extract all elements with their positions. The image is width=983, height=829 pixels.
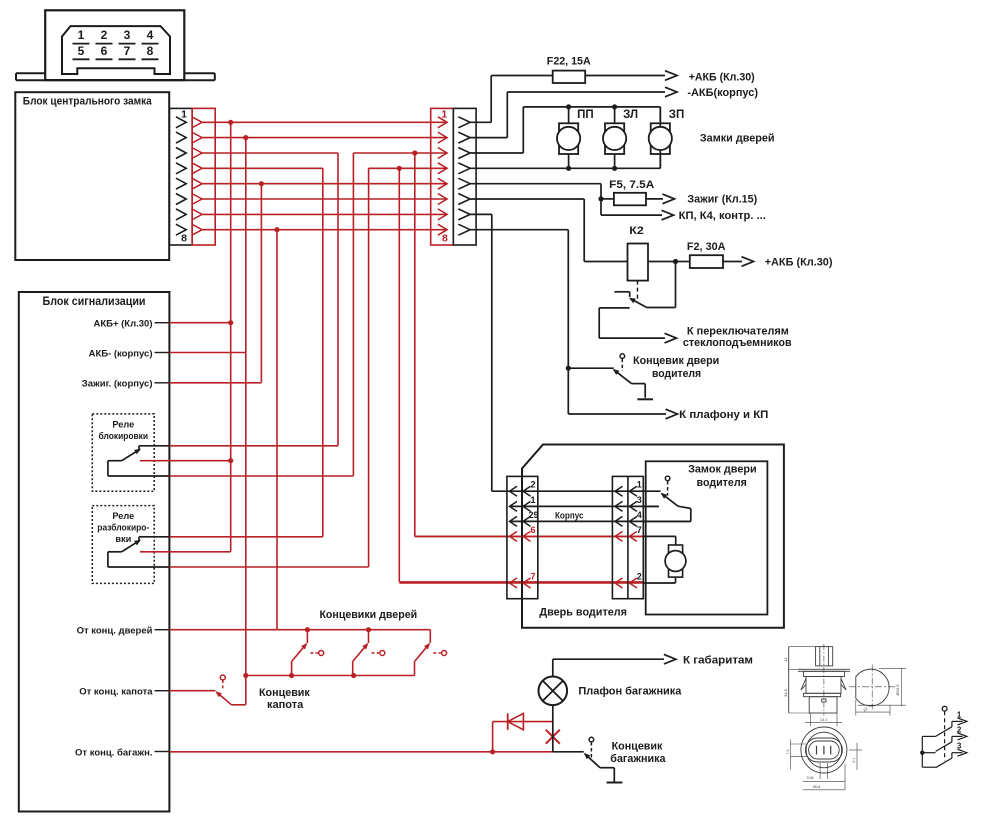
svg-text:АКБ- (корпус): АКБ- (корпус) (89, 348, 153, 359)
svg-text:блокировки: блокировки (99, 431, 149, 441)
svg-text:Блок центрального замка: Блок центрального замка (23, 96, 153, 108)
svg-text:Ø20.6: Ø20.6 (895, 684, 900, 696)
wire AKB+ to x231 (169, 322, 230, 324)
wire lock relay NC to x231 (140, 460, 231, 462)
door switch 2 (353, 630, 385, 676)
svg-text:Концевик двери: Концевик двери (633, 355, 719, 367)
svg-text:Замки дверей: Замки дверей (700, 133, 775, 145)
junction AKB+/x231 (228, 320, 233, 325)
junction relay NC/x231 (228, 458, 233, 463)
diode VD1 bypass (493, 713, 553, 751)
wire pin2 to -AKB (470, 87, 677, 137)
svg-text:Концевики дверей: Концевики дверей (319, 609, 417, 621)
junction gnd bus sw2 (351, 673, 356, 678)
svg-text:7: 7 (637, 525, 642, 535)
connector P1 left (block side) (169, 108, 192, 245)
wire harness row 4 (two segments) (202, 167, 447, 169)
svg-text:Дверь водителя: Дверь водителя (539, 607, 627, 619)
wire to gabarity (553, 654, 676, 676)
wire lamp down (552, 705, 554, 752)
connector X1 pin numbers (73, 28, 159, 59)
door lock switch (661, 476, 691, 521)
label Koncevik kapota (259, 687, 310, 711)
wire harness row 1 (202, 121, 447, 123)
junction row2/x246 (243, 135, 248, 140)
wire drop x261 (row5 to ignition) (260, 184, 262, 383)
svg-text:От конц. дверей: От конц. дверей (77, 626, 153, 637)
label K perekluchatelyam steklopodemnikov (683, 325, 792, 349)
door lock motor (665, 545, 686, 577)
svg-text:6: 6 (101, 44, 108, 58)
svg-text:F2, 30А: F2, 30А (687, 241, 726, 253)
junction bus sw1 (305, 627, 310, 632)
wire drop x231 (row1 to relays) (230, 122, 232, 552)
wire to KP K4 kontr (601, 210, 674, 220)
svg-text:Плафон багажника: Плафон багажника (578, 686, 682, 698)
wire unlock relay NC to x231 (140, 551, 231, 553)
junction diode branch (490, 749, 495, 754)
wire lock pin7 to motor (643, 536, 675, 545)
label Koncevik dveri voditelya (633, 355, 719, 380)
trunk lamp (Плафон багажника) (539, 677, 568, 706)
svg-text:3: 3 (637, 495, 642, 505)
wire K2 contact to F2 junction (647, 262, 676, 308)
junction row1/x231 (228, 120, 233, 125)
wire drop x399 (row4 to door pin7) (399, 168, 643, 582)
svg-text:Ø14: Ø14 (813, 784, 821, 789)
junction bus sw2 (366, 627, 371, 632)
svg-text:8: 8 (442, 233, 448, 245)
svg-text:разблокиро-: разблокиро- (97, 523, 149, 533)
svg-text:3.08: 3.08 (807, 776, 814, 780)
wire drop x246 (row2 to hood switch) (245, 138, 247, 705)
svg-text:7.3: 7.3 (786, 750, 790, 755)
connector door left (507, 476, 539, 598)
wire drop x353 (row3 to lock relay common) (352, 153, 354, 476)
svg-text:8: 8 (181, 233, 187, 245)
svg-text:КП, К4, контр. ...: КП, К4, контр. ... (679, 210, 766, 222)
connector P2 right (harness side, red) (431, 108, 454, 245)
svg-text:От конц. капота: От конц. капота (79, 687, 153, 698)
alarm block pin От конц. капота (79, 687, 169, 698)
junction row5/x261 (259, 181, 264, 186)
wire AKB- to x246 (169, 352, 245, 354)
wire unlock relay NO to x323 (169, 536, 322, 538)
svg-text:1: 1 (531, 495, 536, 505)
svg-text:4: 4 (147, 28, 154, 42)
wire ZP right leg (659, 107, 661, 168)
motor ЗП door lock actuator (649, 107, 672, 168)
junction row3/x415 (412, 150, 417, 155)
wire lock pin4 (643, 520, 691, 522)
wire K2 common to window lifters (599, 308, 676, 343)
wire door row 6 red (415, 535, 644, 537)
wire pin3 to motor top bus (470, 107, 660, 153)
svg-text:2: 2 (101, 28, 108, 42)
svg-text:Замок двери: Замок двери (688, 464, 757, 476)
svg-text:Концевик: Концевик (612, 740, 663, 752)
unlock relay contact (108, 537, 169, 567)
junction row8/x277 (274, 227, 279, 232)
alarm block pin АКБ+ (Кл.30) (93, 319, 169, 330)
svg-text:+АКБ (Кл.30): +АКБ (Кл.30) (765, 257, 833, 269)
wire pin8 to plafond line (470, 230, 677, 419)
ground driver door switch (637, 398, 653, 400)
svg-text:капота: капота (267, 699, 304, 711)
svg-text:2: 2 (637, 572, 642, 582)
svg-text:8: 8 (147, 44, 154, 58)
svg-text:4: 4 (637, 510, 642, 520)
wire door row pin2 (492, 490, 661, 492)
svg-text:3: 3 (957, 742, 962, 751)
ground trunk switch (607, 782, 623, 784)
connector X1 housing drawing (16, 10, 215, 80)
svg-text:Корпус: Корпус (555, 510, 584, 520)
svg-text:29: 29 (529, 510, 539, 520)
svg-text:водителя: водителя (697, 477, 747, 489)
wire pin4 motor bottom bus (470, 167, 660, 169)
central lock block (Блок центрального замка) (15, 92, 169, 260)
svg-text:Реле: Реле (112, 420, 134, 430)
wire drop x369 (row4 to unlock relay common) (368, 168, 370, 567)
svg-text:1: 1 (957, 710, 962, 719)
alarm block pin От конц. дверей (77, 626, 170, 637)
svg-text:3: 3 (124, 28, 131, 42)
wire harness row 5 (202, 183, 447, 185)
wire pin7 to door connector (470, 214, 492, 491)
wire drop x415 (row3 to door pin6) (415, 153, 644, 536)
svg-text:Реле: Реле (112, 511, 134, 521)
svg-text:7: 7 (124, 44, 131, 58)
connector door lock side (612, 476, 643, 598)
hood switch (Концевик капота) (169, 675, 245, 705)
junction F2 (673, 259, 678, 264)
svg-text:6.1: 6.1 (852, 758, 856, 763)
wire harness row 3 (two segments) (202, 152, 447, 154)
svg-text:F5, 7.5А: F5, 7.5А (609, 179, 654, 191)
wire harness row 2 (202, 137, 447, 139)
wire door row korpus (511, 520, 691, 522)
wire drop x323 (row4 to unlock relay) (322, 168, 324, 537)
wire door row pin1 (511, 505, 659, 507)
svg-text:-АКБ(корпус): -АКБ(корпус) (687, 87, 758, 99)
svg-text:багажника: багажника (610, 753, 666, 765)
fuse F2, 30A (687, 241, 726, 268)
junction bottom bus ZL (612, 166, 617, 171)
svg-text:Зажиг. (корпус): Зажиг. (корпус) (82, 379, 153, 390)
wire trunk switch line (169, 751, 552, 753)
svg-text:6: 6 (531, 525, 536, 535)
svg-text:14.1: 14.1 (820, 717, 829, 722)
svg-text:Концевик: Концевик (259, 687, 310, 699)
svg-text:ЗП: ЗП (669, 109, 684, 121)
svg-text:2: 2 (957, 725, 962, 734)
wire lock pin3 stub (643, 505, 659, 507)
alarm block (Блок сигнализации) (19, 292, 170, 812)
wire harness row 6 (202, 198, 447, 200)
svg-text:1: 1 (441, 109, 447, 121)
junction F5 branch (598, 196, 603, 201)
label Koncevik bagazhnika (610, 740, 666, 765)
svg-text:2: 2 (531, 480, 536, 490)
svg-text:стеклоподъемников: стеклоподъемников (683, 337, 792, 349)
wire door switches bus (169, 629, 430, 631)
svg-text:Зажиг (Кл.15): Зажиг (Кл.15) (687, 194, 757, 206)
wire door switches ground bus (246, 675, 415, 677)
svg-text:1: 1 (78, 28, 85, 42)
svg-text:1: 1 (637, 480, 642, 490)
wire unlock relay common to x369 (169, 566, 368, 568)
svg-text:АКБ+ (Кл.30): АКБ+ (Кл.30) (93, 319, 152, 330)
connector P1 left (harness side, red) (192, 108, 215, 245)
wire harness row 7 (202, 213, 447, 215)
wire F2 to +AKB (676, 257, 754, 267)
wire door row 7 red (399, 582, 643, 584)
alarm block pin АКБ- (корпус) (89, 348, 170, 359)
svg-text:К переключателям: К переключателям (687, 325, 789, 337)
svg-text:5: 5 (78, 44, 85, 58)
wire harness row 8 (202, 229, 447, 231)
motor ПП door lock actuator (557, 107, 580, 168)
motor ЗЛ door lock actuator (603, 107, 626, 168)
junction driver door switch (566, 366, 571, 371)
junction bottom bus PP (566, 166, 571, 171)
svg-text:К габаритам: К габаритам (683, 654, 753, 666)
lock relay contact (108, 446, 169, 476)
trunk switch (Концевик багажника) (553, 737, 615, 782)
junction gnd bus sw1 (289, 673, 294, 678)
driver door jamb switch (Концевик двери водителя) (568, 354, 645, 398)
svg-text:От конц. багажн.: От конц. багажн. (75, 747, 152, 758)
wire drop x277 (row8 to door switches line) (276, 230, 278, 630)
splice mark X (546, 730, 560, 744)
door lock box (Замок двери водителя) (646, 461, 768, 614)
junction top bus ZL (612, 104, 617, 109)
svg-text:+АКБ (Кл.30): +АКБ (Кл.30) (689, 72, 755, 84)
junction row4/x399 (397, 166, 402, 171)
unlock relay box (Реле разблокировки) (92, 506, 154, 584)
svg-text:34.3: 34.3 (783, 688, 788, 697)
svg-text:К плафону и КП: К плафону и КП (679, 409, 768, 421)
svg-text:водителя: водителя (652, 368, 701, 380)
tech drawing: switch side view (783, 644, 850, 726)
svg-text:7: 7 (531, 572, 536, 582)
junction gnd bus x246 (243, 673, 248, 678)
driver door box (Дверь водителя) (522, 445, 784, 628)
wire ignition to x261 (169, 382, 261, 384)
wire motor to pin2 (643, 577, 675, 583)
fuse F22, 15A (547, 56, 591, 84)
svg-text:К2: К2 (629, 225, 644, 237)
svg-text:F22, 15А: F22, 15А (547, 56, 591, 68)
svg-text:Блок сигнализации: Блок сигнализации (43, 296, 146, 308)
wire F22 to +AKB (585, 71, 677, 81)
wire pin1 to F22 (470, 76, 553, 123)
svg-text:1: 1 (181, 109, 187, 121)
wire pin6 to K2 (470, 199, 627, 262)
alarm block pin От конц. багажн. (75, 747, 169, 758)
tech drawing: switch contacts schematic (920, 706, 967, 767)
connector P2 right (vehicle side) (453, 108, 476, 245)
tech drawing: switch bottom view (786, 727, 862, 790)
svg-text:вки: вки (115, 534, 131, 544)
wire lock relay common to x353 (169, 475, 353, 477)
door switch 1 (292, 630, 324, 676)
fuse F5, 7.5A (609, 179, 654, 205)
svg-text:ЗЛ: ЗЛ (623, 109, 638, 121)
wire K2 to F2 junction (648, 261, 676, 263)
relay K2 coil (628, 225, 649, 281)
tech drawing: switch rear view (849, 665, 906, 716)
relay K2 contact (614, 281, 647, 308)
svg-text:ПП: ПП (577, 109, 594, 121)
door switch 3 (415, 630, 447, 676)
lock relay box (Реле блокировки) (92, 414, 154, 491)
wire pin5 to F5 (470, 184, 614, 215)
junction top bus PP (566, 104, 571, 109)
wire lock relay NO to x338 (169, 445, 338, 447)
wire drop x338 (row3 to lock relay) (337, 153, 339, 446)
wire F5 to ignition (646, 194, 675, 204)
alarm block pin Зажиг. (корпус) (82, 379, 170, 390)
